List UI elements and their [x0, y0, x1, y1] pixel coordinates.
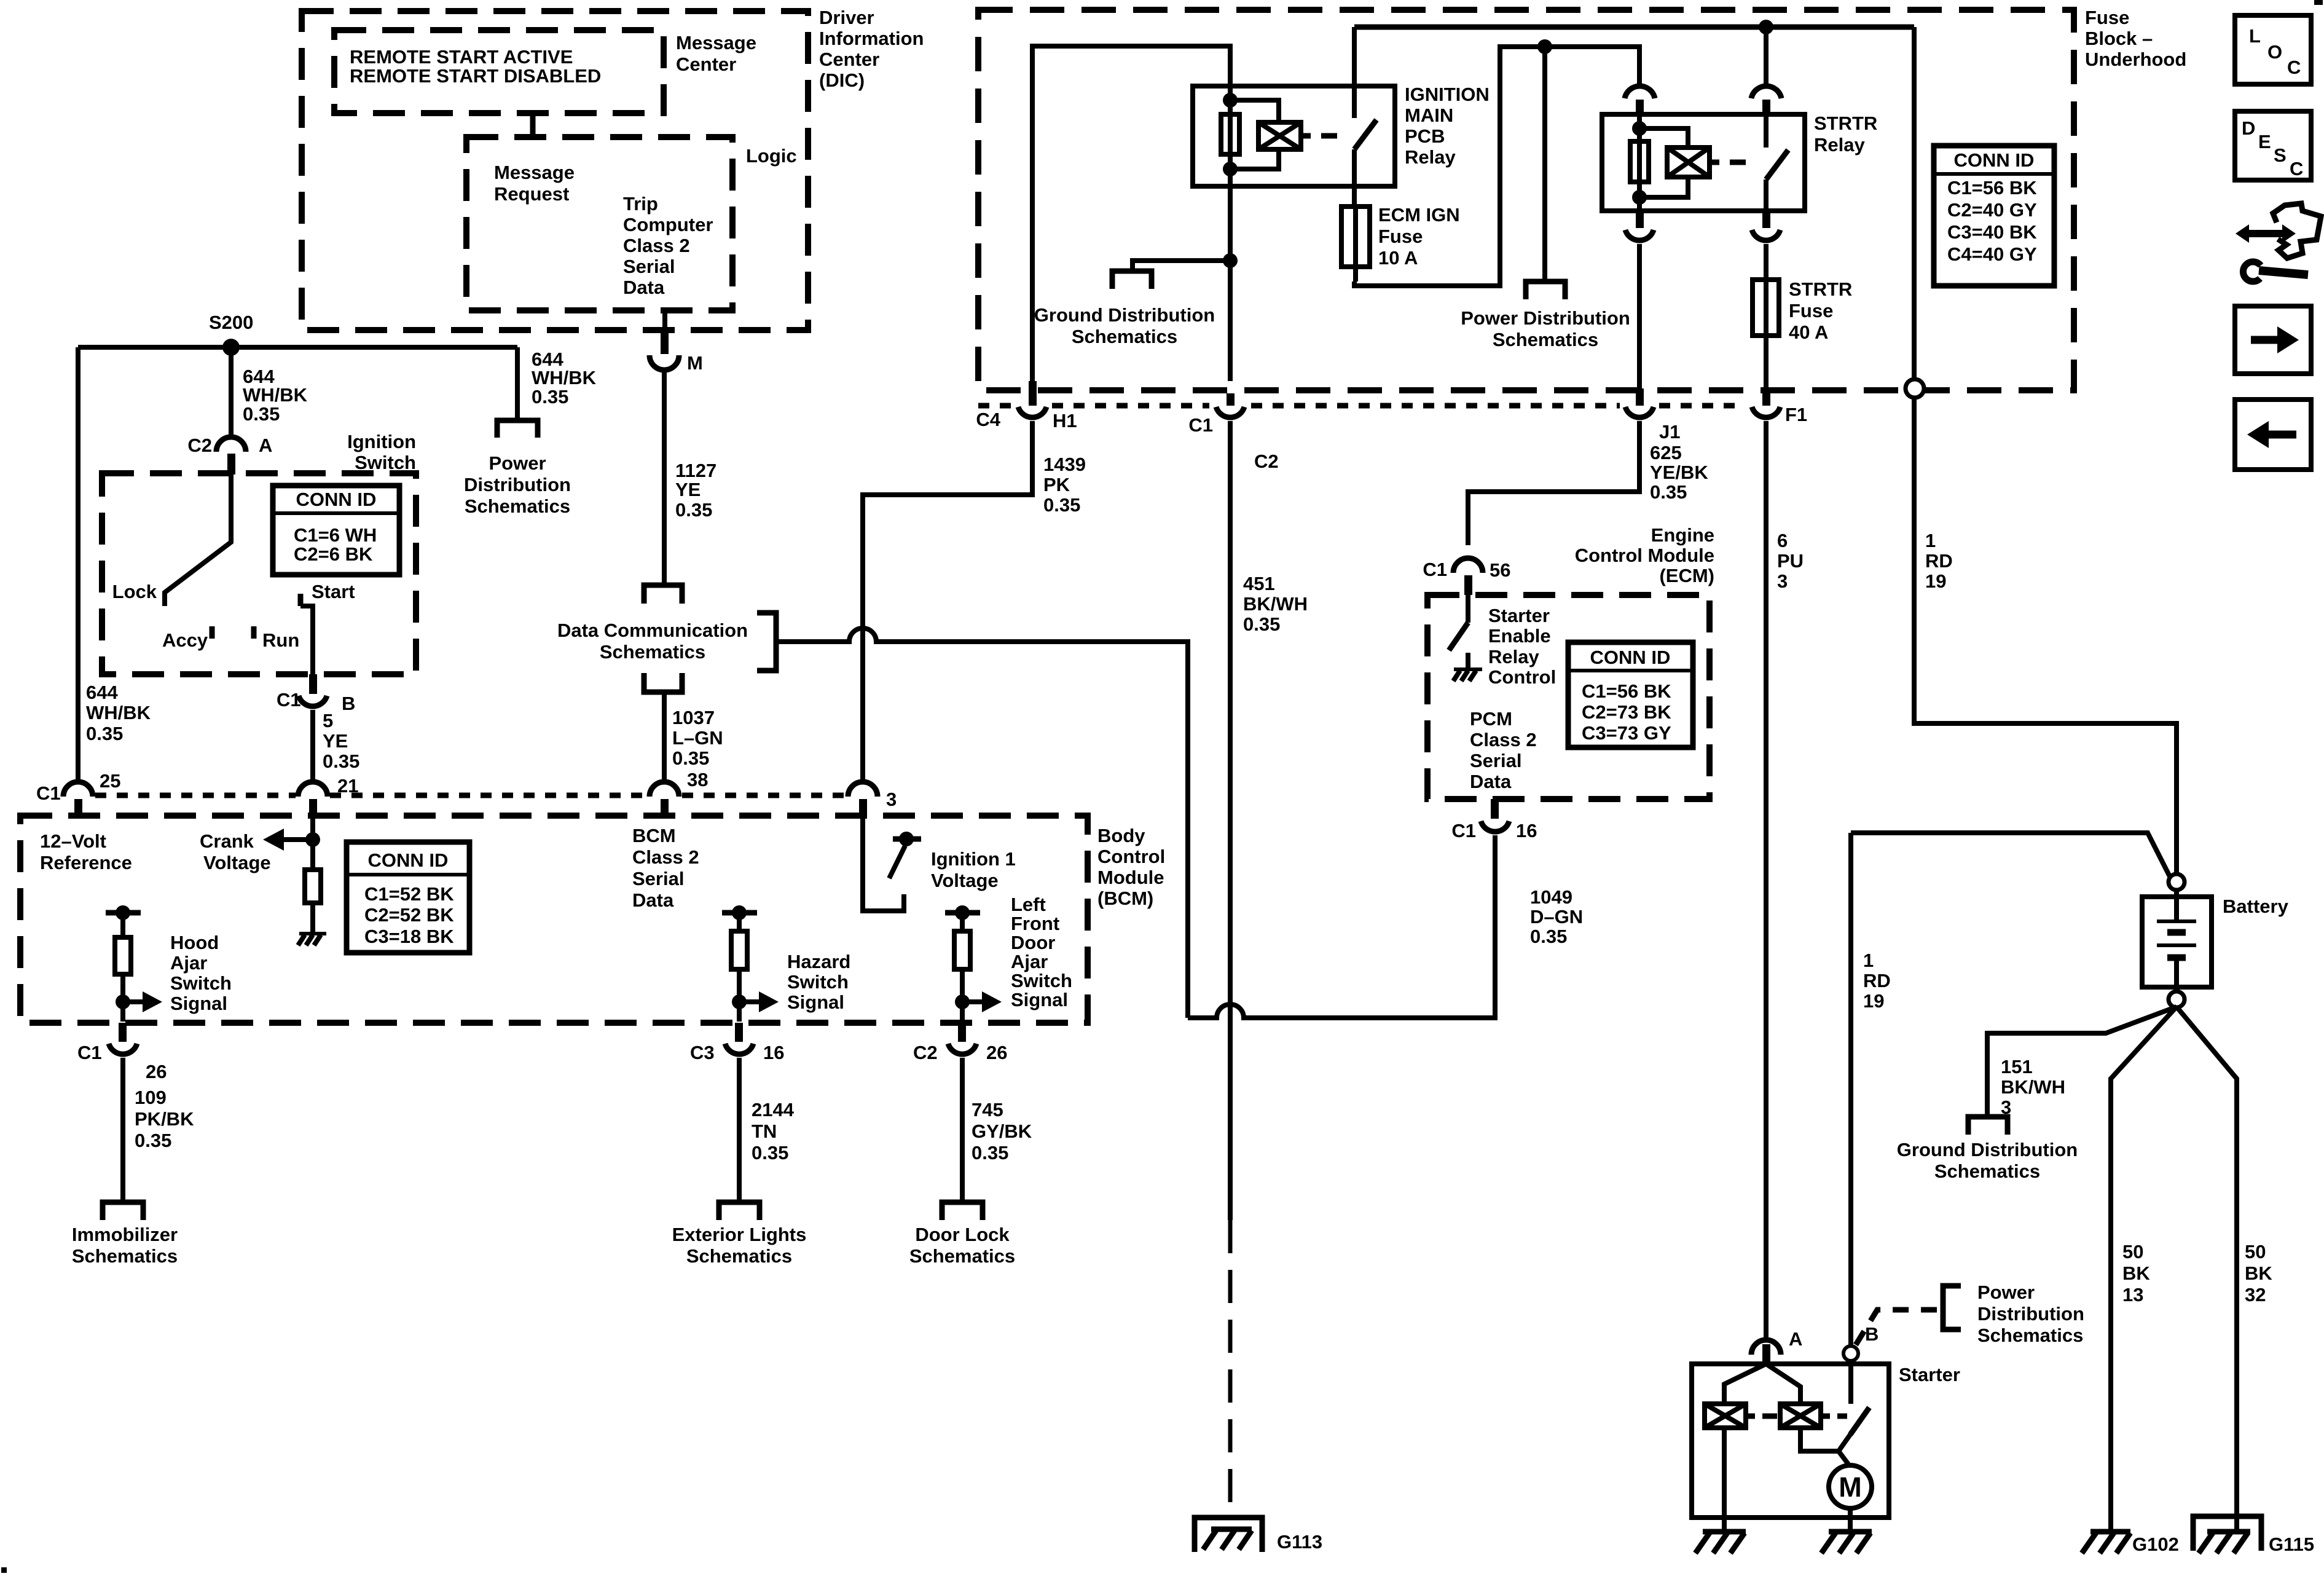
svg-text:Relay: Relay [1405, 146, 1456, 168]
wire strtr fuse to F1 [1764, 336, 1769, 388]
svg-text:2144: 2144 [752, 1099, 795, 1120]
svg-text:Enable: Enable [1488, 625, 1551, 647]
svg-text:Voltage: Voltage [931, 870, 999, 891]
wire 625 YE/BK J1 to ECM [1468, 421, 1639, 545]
coil ignition relay winding crossed box [1258, 122, 1311, 149]
svg-text:C1: C1 [1451, 820, 1476, 841]
svg-text:Request: Request [494, 183, 569, 205]
svg-text:C1=52 BK: C1=52 BK [364, 883, 454, 905]
svg-text:WH/BK: WH/BK [532, 367, 597, 388]
svg-text:3: 3 [886, 789, 897, 810]
svg-text:Switch: Switch [170, 972, 232, 994]
wire 6 PU 3 F1 to starter A [1764, 421, 1769, 1342]
off-page bracket ground distribution battery [1968, 1117, 2008, 1135]
resistor strtr relay coil suppressor [1630, 141, 1649, 182]
svg-text:1: 1 [1863, 950, 1874, 971]
svg-text:50: 50 [2122, 1241, 2143, 1262]
svg-text:Message: Message [494, 162, 575, 183]
svg-text:Schematics: Schematics [465, 495, 570, 517]
connector pin 38 [650, 769, 708, 816]
svg-text:Block –: Block – [2085, 28, 2153, 49]
svg-text:Underhood: Underhood [2085, 49, 2186, 70]
wire ign fuse output to strtr coil [1354, 47, 1639, 286]
node strtr coil top junction [1632, 121, 1647, 136]
wire 1037 L-GN to BCM pin 38 [662, 692, 667, 781]
svg-text:Ground Distribution: Ground Distribution [1034, 304, 1215, 326]
svg-text:Switch: Switch [1011, 970, 1072, 991]
ground starter right [1821, 1532, 1872, 1553]
svg-text:Data: Data [1470, 771, 1512, 792]
svg-text:STRTR: STRTR [1789, 278, 1852, 300]
off-page bracket data communication upper [644, 585, 682, 604]
wire 451 dashed to G113 [1228, 1220, 1233, 1518]
node open circle fuse block exit [1906, 379, 1924, 398]
svg-text:C1: C1 [77, 1042, 102, 1063]
svg-text:Schematics: Schematics [600, 641, 705, 663]
svg-text:ECM IGN: ECM IGN [1378, 204, 1460, 226]
svg-text:151: 151 [2001, 1056, 2033, 1077]
connector J1 [1625, 388, 1680, 443]
svg-text:Control: Control [1097, 846, 1165, 867]
wire 2144 TN to exterior lights [737, 1058, 742, 1200]
connector pin 21 [298, 775, 358, 816]
svg-text:Center: Center [819, 49, 879, 70]
svg-text:Start: Start [312, 581, 355, 602]
svg-text:C1: C1 [36, 782, 61, 804]
svg-text:CONN ID: CONN ID [296, 489, 377, 510]
svg-text:Signal: Signal [170, 993, 227, 1014]
svg-text:Engine: Engine [1651, 524, 1714, 546]
box Starter [1692, 1364, 1960, 1518]
switch ignition 1 voltage [863, 816, 1016, 911]
svg-text:Class 2: Class 2 [623, 235, 690, 256]
box Driver Information Center (DIC) [302, 7, 924, 330]
svg-text:S200: S200 [209, 312, 253, 333]
motor M starter [1829, 1465, 1872, 1508]
table CONN ID ECM [1568, 642, 1693, 747]
table CONN ID BCM [347, 842, 469, 953]
box Fuse Block - Underhood [978, 7, 2186, 390]
terminal B starter circle [1843, 1323, 1878, 1361]
svg-text:BK: BK [2245, 1262, 2272, 1284]
svg-text:Hood: Hood [170, 932, 219, 953]
svg-text:D: D [2242, 117, 2255, 139]
battery B+ terminal circle [2169, 874, 2185, 890]
table CONN ID ignition switch [273, 486, 399, 575]
svg-text:(DIC): (DIC) [819, 69, 865, 91]
connector C1 pin 26 hood [77, 1023, 167, 1082]
svg-text:Information: Information [819, 28, 924, 49]
svg-text:451: 451 [1243, 573, 1275, 594]
svg-text:REMOTE START DISABLED: REMOTE START DISABLED [350, 65, 601, 87]
svg-text:RD: RD [1863, 970, 1891, 991]
svg-text:Control Module: Control Module [1575, 545, 1714, 566]
wire S200 horizontal bus [78, 345, 517, 350]
coil strtr relay winding crossed box [1667, 148, 1719, 177]
svg-text:0.35: 0.35 [1043, 494, 1080, 516]
wire starter A fork [1724, 1364, 1800, 1404]
connector strtr coil lower [1625, 211, 1654, 240]
wire battery bus top [1354, 25, 1914, 30]
svg-text:Exterior Lights: Exterior Lights [672, 1224, 807, 1245]
bracket power distribution starter [1943, 1286, 1961, 1329]
off-page bracket data communication lower [644, 673, 682, 692]
svg-text:19: 19 [1863, 990, 1884, 1012]
svg-text:YE: YE [675, 479, 701, 500]
svg-text:0.35: 0.35 [1650, 481, 1687, 503]
svg-text:Data Communication: Data Communication [557, 620, 748, 641]
svg-text:YE: YE [323, 730, 348, 752]
off-page bracket immobilizer [103, 1202, 143, 1220]
wire battery positive feed from starter B [1851, 833, 2170, 876]
svg-text:J1: J1 [1659, 421, 1680, 443]
wire 1049 D-GN with hop over 451 [1188, 835, 1495, 1018]
svg-text:IGNITION: IGNITION [1405, 84, 1490, 105]
svg-text:Power Distribution: Power Distribution [1461, 307, 1630, 329]
connector C1/B [277, 674, 355, 714]
wire data comm horizontal with hop at 1404 [776, 628, 1188, 1018]
svg-text:G113: G113 [1277, 1531, 1322, 1553]
svg-text:Message: Message [676, 32, 756, 53]
wire 50 BK 13 battery to G102 [2111, 1007, 2177, 1532]
wire strtr coil to J1 [1637, 244, 1642, 388]
svg-text:Relay: Relay [1814, 134, 1865, 156]
switch strtr relay contacts [1766, 114, 1788, 211]
svg-text:C1: C1 [1423, 559, 1447, 580]
wire 451 BK/WH down [1228, 421, 1233, 1220]
svg-text:Switch: Switch [355, 452, 416, 473]
icon back arrow box [2235, 400, 2311, 470]
wire 644 right branch to power distribution [515, 347, 520, 419]
svg-text:0.35: 0.35 [1530, 926, 1567, 947]
svg-text:Battery: Battery [2223, 896, 2289, 917]
svg-text:Schematics: Schematics [686, 1245, 792, 1267]
wire ground distribution branch [1133, 261, 1230, 270]
svg-text:1037: 1037 [672, 707, 715, 728]
battery [2142, 890, 2289, 991]
node strtr switch feed junction [1759, 20, 1773, 34]
svg-text:10 A: 10 A [1378, 247, 1418, 269]
svg-text:1049: 1049 [1530, 886, 1572, 908]
resistor crank pulldown [305, 870, 321, 903]
svg-text:13: 13 [2122, 1284, 2143, 1305]
svg-text:Control: Control [1488, 666, 1556, 688]
svg-text:(ECM): (ECM) [1659, 565, 1714, 586]
wire dash solenoid link [1746, 1414, 1847, 1419]
wire message center to logic [530, 113, 536, 137]
svg-text:Signal: Signal [787, 991, 844, 1013]
svg-text:Run: Run [262, 629, 299, 651]
svg-text:GY/BK: GY/BK [972, 1120, 1032, 1142]
svg-text:M: M [1839, 1471, 1862, 1503]
icon LOC box [2235, 15, 2311, 84]
corner mark top right [2314, 0, 2323, 5]
svg-text:Distribution: Distribution [1977, 1303, 2084, 1325]
svg-text:YE/BK: YE/BK [1650, 462, 1708, 483]
wire strtr switch to fuse [1764, 244, 1769, 280]
svg-text:Schematics: Schematics [72, 1245, 178, 1267]
svg-text:C2=6 BK: C2=6 BK [294, 543, 373, 565]
node junction power distribution drop [1537, 39, 1552, 54]
wire ignition relay coil pin [1228, 86, 1233, 381]
node Accy contact [162, 626, 212, 651]
solenoid hold-in winding crossed box [1780, 1404, 1821, 1428]
icon wrench arrow [2236, 203, 2321, 282]
svg-text:Serial: Serial [632, 868, 684, 889]
svg-text:C2=40 GY: C2=40 GY [1947, 199, 2037, 221]
box Ignition Switch [102, 431, 416, 674]
svg-text:BK: BK [2122, 1262, 2150, 1284]
svg-text:C1=56 BK: C1=56 BK [1582, 680, 1671, 702]
svg-text:644: 644 [86, 682, 118, 703]
connector strtr switch upper [1751, 27, 1781, 116]
svg-text:PK: PK [1043, 474, 1070, 495]
connector C1 pin 56 ECM [1423, 558, 1510, 595]
node coil top junction [1223, 93, 1238, 108]
arrow crank voltage left [200, 829, 313, 873]
wire 109 PK/BK to immobilizer [120, 1058, 125, 1200]
wire S200 down to C2/A 644 WH/BK [229, 347, 234, 438]
box Body Control Module (BCM) [20, 816, 1165, 1023]
svg-text:PK/BK: PK/BK [135, 1108, 194, 1130]
svg-text:Left: Left [1011, 894, 1046, 915]
ground crank internal [298, 934, 326, 945]
ground starter left [1695, 1532, 1746, 1553]
svg-text:C1: C1 [1188, 414, 1213, 436]
svg-text:D–GN: D–GN [1530, 906, 1583, 927]
wire crank voltage node [310, 816, 315, 870]
icon DESC box [2235, 111, 2311, 180]
svg-text:L: L [2249, 25, 2261, 47]
svg-text:25: 25 [100, 770, 120, 792]
svg-text:B: B [1865, 1323, 1878, 1345]
svg-text:A: A [1789, 1328, 1802, 1350]
svg-text:32: 32 [2245, 1284, 2266, 1305]
svg-text:C: C [2287, 57, 2301, 78]
wire fuse block connector row dotted [978, 403, 1745, 409]
svg-text:745: 745 [972, 1099, 1003, 1120]
wire ignition relay coil feed from H1 [1032, 46, 1230, 381]
connector strtr switch lower [1752, 211, 1780, 240]
fuse ECM IGN 10A [1341, 204, 1460, 282]
connector C3 pin 16 hazard [690, 1023, 784, 1063]
svg-text:40 A: 40 A [1789, 321, 1828, 343]
svg-text:B: B [342, 693, 355, 714]
svg-text:C1: C1 [277, 689, 301, 711]
table CONN ID fuse block [1934, 146, 2054, 286]
off-page bracket power distribution fuse block [1526, 282, 1565, 299]
node Start contact [300, 581, 355, 606]
svg-text:5: 5 [323, 710, 333, 731]
svg-text:Fuse: Fuse [2085, 7, 2129, 28]
wire pull-in winding ground leg [1722, 1428, 1727, 1532]
connector pin 3 [848, 782, 897, 816]
svg-text:Switch: Switch [787, 971, 849, 993]
svg-text:E: E [2258, 131, 2271, 152]
switch hazard internal [722, 905, 850, 1022]
box Engine Control Module (ECM) [1427, 524, 1714, 799]
svg-text:Center: Center [676, 53, 736, 75]
svg-text:STRTR: STRTR [1814, 112, 1877, 134]
svg-text:Crank: Crank [200, 830, 254, 852]
svg-text:Signal: Signal [1011, 989, 1068, 1010]
wire to crank ground [310, 903, 315, 934]
ground G102 [2082, 1532, 2179, 1555]
off-page bracket ground distribution fuse block [1112, 271, 1152, 289]
svg-text:(BCM): (BCM) [1097, 888, 1153, 909]
switch ignition relay contacts [1354, 27, 1376, 207]
svg-text:Front: Front [1011, 913, 1059, 934]
corner mark bottom left [1, 1567, 7, 1573]
svg-text:Lock: Lock [112, 581, 157, 602]
svg-text:0.35: 0.35 [972, 1142, 1008, 1164]
svg-text:Schematics: Schematics [1934, 1160, 2040, 1182]
svg-text:19: 19 [1925, 570, 1946, 592]
wire strtr coil pin [1637, 114, 1642, 211]
svg-text:Driver: Driver [819, 7, 874, 28]
svg-text:Hazard: Hazard [787, 951, 850, 972]
svg-text:38: 38 [687, 769, 708, 790]
wire 745 GY/BK to door lock [960, 1058, 965, 1200]
wire battery negative to 151 BK/WH branch [1987, 1007, 2177, 1116]
svg-text:Starter: Starter [1488, 605, 1550, 626]
svg-text:C3: C3 [690, 1042, 715, 1063]
wire BCM interface dotted line [95, 793, 296, 798]
svg-text:A: A [259, 435, 272, 456]
svg-text:C1=6 WH: C1=6 WH [294, 524, 377, 546]
svg-text:Schematics: Schematics [1072, 326, 1177, 347]
fuse STRTR 40A [1753, 278, 1852, 343]
wire 1 RD 19 bus to battery [1914, 27, 2177, 875]
box Message Center [334, 30, 756, 113]
svg-text:Serial: Serial [1470, 750, 1521, 771]
off-page bracket power distribution (left) [497, 420, 538, 438]
svg-text:0.35: 0.35 [243, 403, 280, 425]
node coil bottom junction [1223, 162, 1238, 176]
svg-text:Power: Power [489, 452, 546, 474]
svg-text:625: 625 [1650, 442, 1682, 463]
connector C2 pin 26 door [913, 1023, 1007, 1063]
svg-text:BCM: BCM [632, 825, 676, 846]
svg-text:Distribution: Distribution [464, 474, 571, 495]
switch left front door ajar internal [945, 894, 1072, 1022]
svg-text:12–Volt: 12–Volt [40, 830, 106, 852]
svg-text:L–GN: L–GN [672, 727, 723, 749]
svg-text:CONN ID: CONN ID [1954, 149, 2035, 171]
svg-text:16: 16 [763, 1042, 784, 1063]
svg-text:S: S [2274, 144, 2287, 166]
off-page bracket door lock [942, 1202, 983, 1220]
wire dash power distribution pointer starter [1856, 1310, 1937, 1345]
svg-text:16: 16 [1516, 820, 1537, 841]
svg-text:Body: Body [1097, 825, 1145, 846]
svg-text:O: O [2267, 41, 2282, 63]
svg-text:MAIN: MAIN [1405, 104, 1453, 126]
svg-text:PCM: PCM [1470, 708, 1512, 730]
relay STRTR [1602, 112, 1877, 211]
wire starter B drop [1848, 833, 1853, 1347]
connector C1/C2 [1188, 393, 1278, 472]
switch starter solenoid contacts [1839, 1361, 1869, 1451]
svg-text:Power: Power [1977, 1282, 2035, 1303]
connector strtr coil upper [1625, 86, 1655, 116]
svg-text:0.35: 0.35 [86, 723, 123, 744]
svg-text:0.35: 0.35 [323, 750, 359, 772]
connector C1 pin 16 ECM [1451, 799, 1537, 841]
wire coil branch [1230, 100, 1279, 169]
svg-text:1: 1 [1925, 530, 1936, 551]
ground G115 [2193, 1516, 2314, 1555]
ground starter enable internal [1453, 669, 1482, 681]
svg-text:Schematics: Schematics [1493, 329, 1598, 350]
svg-text:F1: F1 [1785, 404, 1807, 425]
wire ignition switch wiper [165, 473, 231, 606]
connector A starter [1751, 1328, 1802, 1364]
wire dash strtr coil to switch link [1730, 160, 1758, 165]
node crank junction dot [305, 832, 320, 847]
svg-text:109: 109 [135, 1087, 167, 1108]
svg-text:C1=56 BK: C1=56 BK [1947, 177, 2037, 199]
svg-text:PU: PU [1777, 550, 1804, 572]
svg-text:Ajar: Ajar [170, 952, 207, 974]
svg-text:Immobilizer: Immobilizer [72, 1224, 178, 1245]
svg-text:C2: C2 [187, 435, 212, 456]
svg-text:56: 56 [1490, 559, 1510, 581]
svg-text:Accy: Accy [162, 629, 208, 651]
svg-text:Fuse: Fuse [1378, 226, 1423, 247]
svg-text:C: C [2290, 158, 2303, 179]
svg-text:Computer: Computer [623, 214, 713, 235]
svg-text:BK/WH: BK/WH [2001, 1076, 2065, 1098]
svg-text:Ground Distribution: Ground Distribution [1897, 1139, 2078, 1160]
node Run contact [254, 626, 299, 651]
svg-text:H1: H1 [1053, 410, 1077, 431]
svg-text:C3=18 BK: C3=18 BK [364, 926, 454, 947]
switch hood ajar [106, 905, 232, 1022]
svg-text:REMOTE START ACTIVE: REMOTE START ACTIVE [350, 46, 573, 68]
svg-text:BK/WH: BK/WH [1243, 593, 1308, 615]
svg-text:Ignition 1: Ignition 1 [931, 848, 1016, 870]
svg-text:26: 26 [986, 1042, 1007, 1063]
svg-text:PCB: PCB [1405, 125, 1445, 147]
bracket data communication right [757, 613, 776, 671]
svg-text:WH/BK: WH/BK [86, 702, 151, 723]
node strtr coil bottom junction [1632, 190, 1647, 205]
svg-text:0.35: 0.35 [532, 386, 568, 408]
svg-text:C2=52 BK: C2=52 BK [364, 904, 454, 926]
svg-text:RD: RD [1925, 550, 1953, 572]
wire dash coil to switch link [1321, 133, 1349, 139]
wire power distribution drop [1542, 47, 1547, 280]
svg-text:Reference: Reference [40, 852, 132, 873]
box Logic [466, 137, 797, 310]
svg-text:Fuse: Fuse [1789, 300, 1833, 321]
svg-text:3: 3 [1777, 570, 1788, 592]
off-page bracket exterior lights [719, 1202, 760, 1220]
svg-text:WH/BK: WH/BK [243, 384, 308, 406]
wire strtr coil branch [1639, 128, 1688, 197]
wire 1127 YE M to data communication [662, 369, 667, 583]
svg-text:Ignition: Ignition [347, 431, 416, 452]
svg-text:Serial: Serial [623, 256, 675, 277]
svg-text:21: 21 [337, 775, 358, 797]
wire 5 YE to pin 21 [310, 710, 315, 781]
node ground distribution junction [1223, 253, 1238, 268]
svg-text:C3=40 BK: C3=40 BK [1947, 221, 2037, 243]
svg-text:Class 2: Class 2 [632, 846, 699, 868]
svg-text:50: 50 [2245, 1241, 2266, 1262]
svg-text:Module: Module [1097, 867, 1164, 888]
